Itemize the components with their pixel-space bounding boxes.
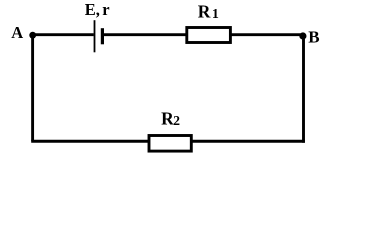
svg-text:r: r	[102, 0, 109, 19]
wire left vertical: node A to bottom	[31, 35, 34, 142]
battery E,r short plate	[101, 28, 104, 44]
svg-text:R: R	[198, 1, 211, 21]
node A	[29, 32, 36, 39]
svg-text:2: 2	[173, 113, 180, 128]
wire top-left: node A to battery	[33, 33, 94, 36]
svg-text:B: B	[308, 28, 319, 47]
wire bottom-left: corner to R2	[31, 140, 149, 143]
svg-text:1: 1	[212, 7, 219, 22]
wire bottom-right: R2 to corner	[191, 140, 305, 143]
svg-text:E,: E,	[85, 0, 100, 19]
battery E,r long plate	[94, 20, 96, 52]
resistor R1 body	[187, 28, 231, 43]
wire right vertical: node B to bottom	[302, 36, 305, 143]
resistor R2 body	[149, 136, 191, 152]
wire top-middle: battery to R1	[103, 33, 186, 36]
node B	[299, 32, 306, 39]
wire top-right: R1 to node B	[231, 33, 304, 36]
svg-text:R: R	[161, 109, 174, 129]
svg-text:A: A	[11, 23, 23, 42]
